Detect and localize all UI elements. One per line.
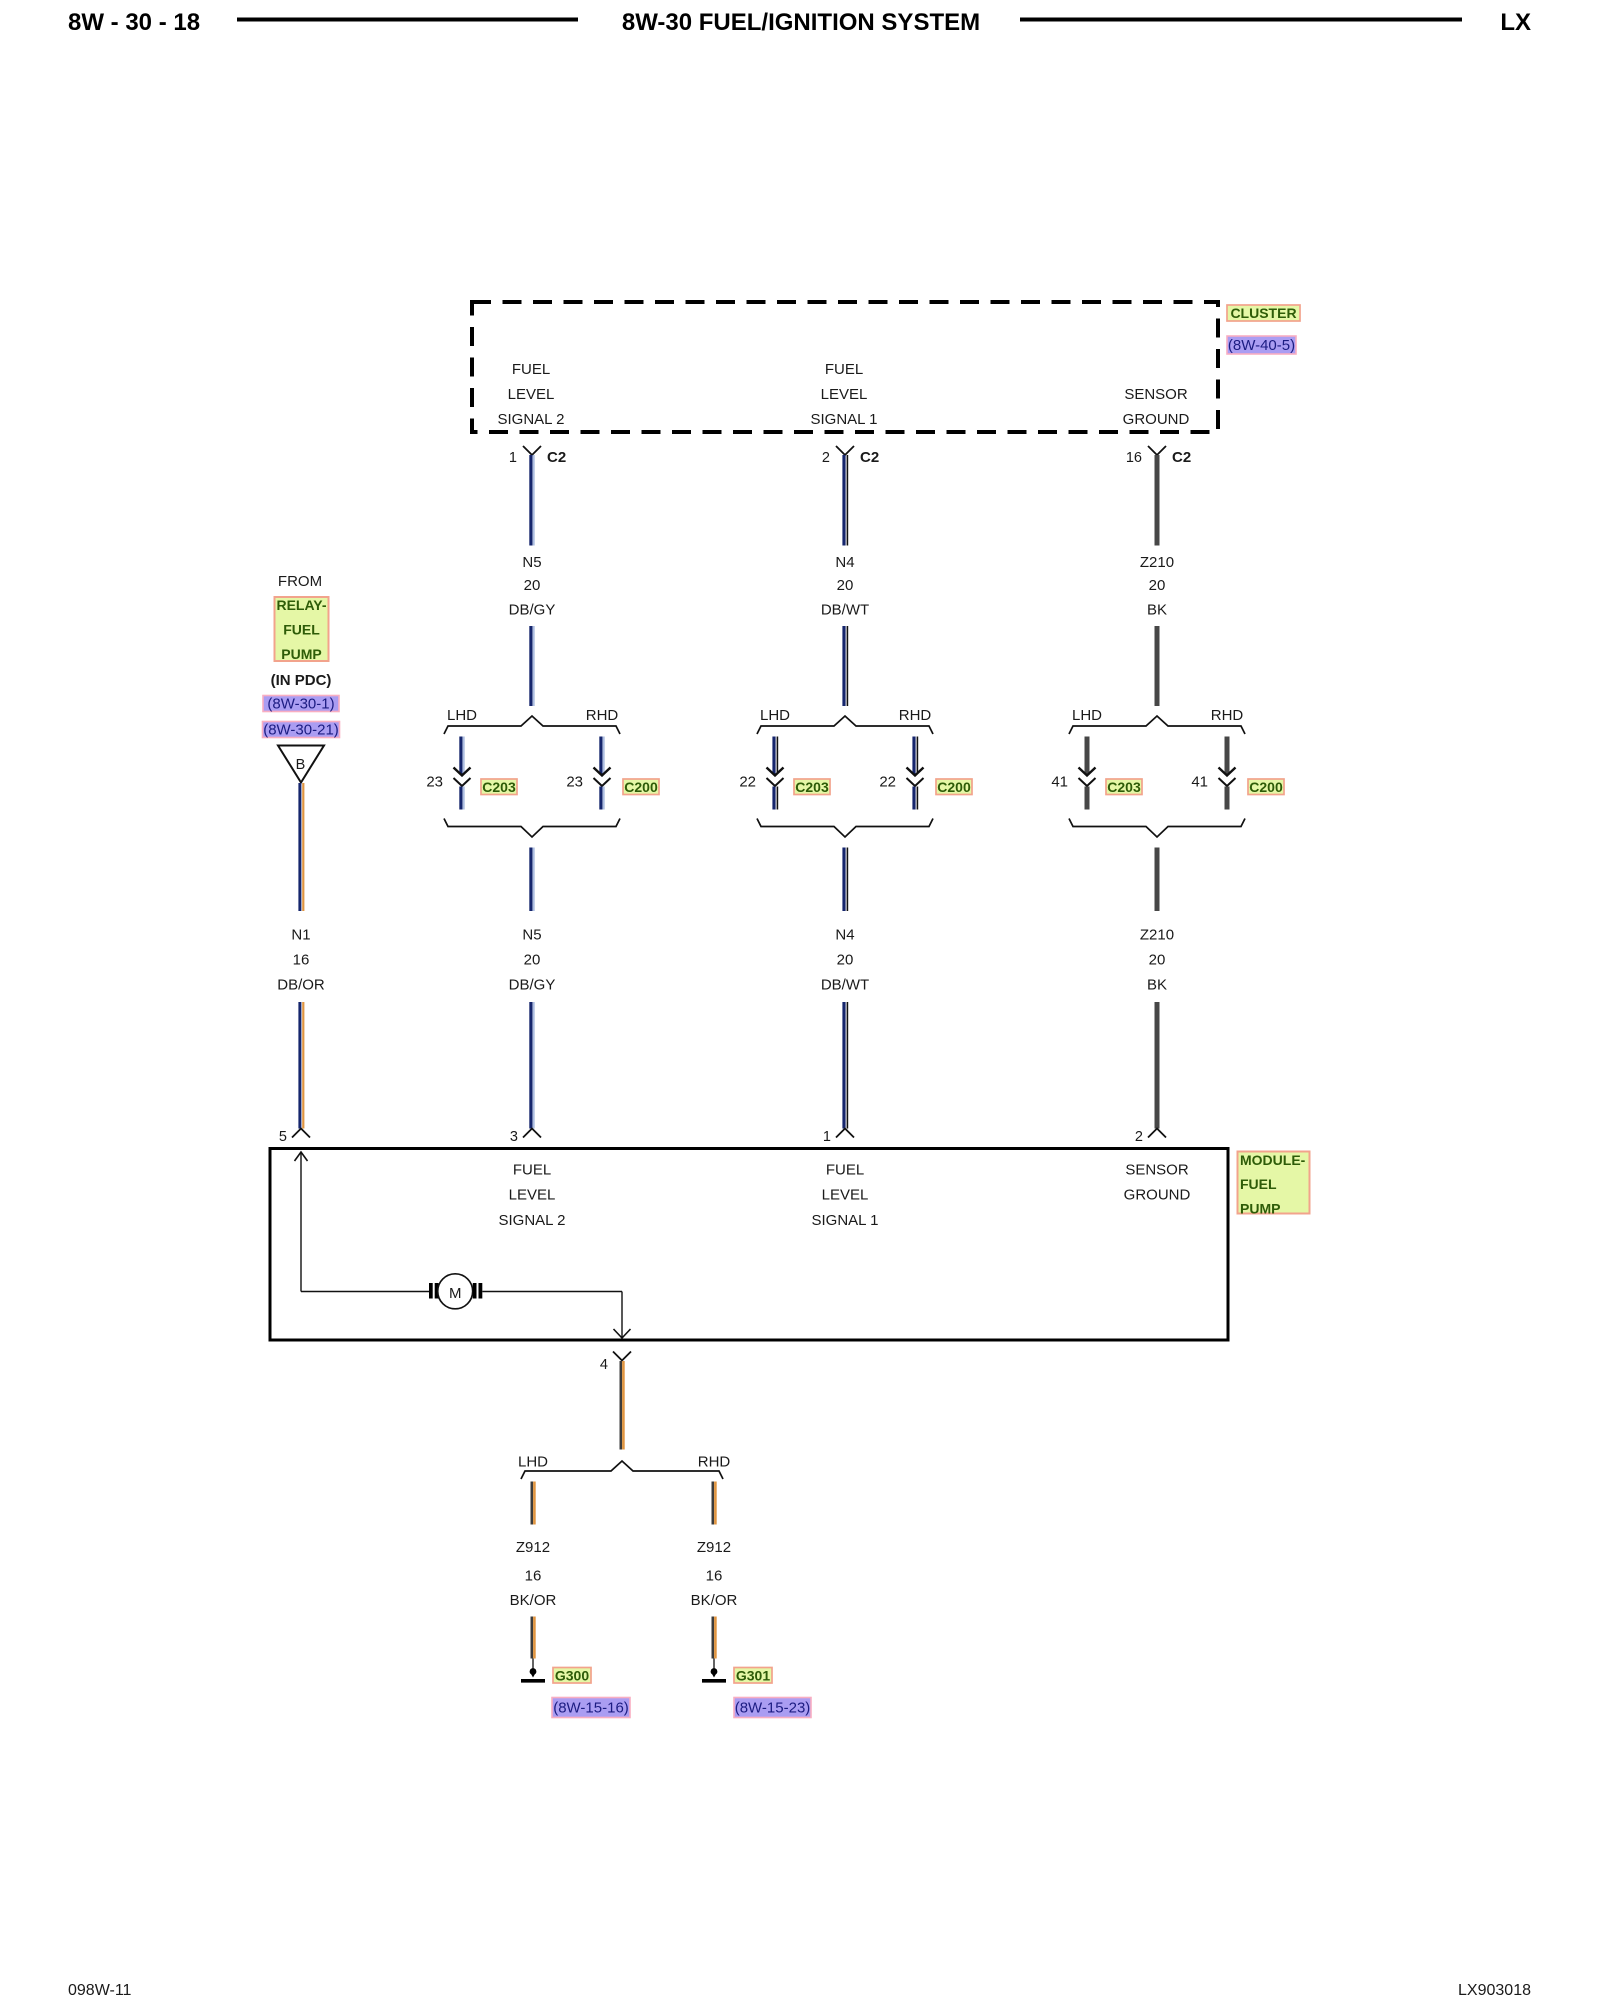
- svg-text:1: 1: [823, 1129, 831, 1145]
- LHD branch wire upper x=462: [461, 737, 464, 775]
- page link (8W-15-16): [552, 1698, 630, 1718]
- component label RELAY-FUEL PUMP: [275, 597, 329, 662]
- splice merge brace (bottom) x=532: [444, 819, 620, 838]
- svg-text:FUEL: FUEL: [825, 361, 863, 378]
- LHD wire to ground G300 (BK/OR): [532, 1617, 535, 1659]
- arrowhead into connector C203 x=775: [767, 768, 784, 776]
- module box (FUEL PUMP MODULE): [270, 1149, 1228, 1341]
- LHD branch wire upper x=1087: [1085, 737, 1090, 775]
- connector label C200 x=602: [623, 779, 659, 795]
- svg-text:FUEL: FUEL: [513, 1162, 551, 1179]
- splice merge brace (bottom) x=845: [757, 819, 933, 838]
- cluster pin label FUEL LEVEL SIGNAL 1: [811, 361, 878, 428]
- wire N1 to module pin 5 (DB/OR): [300, 1002, 303, 1129]
- svg-text:C2: C2: [547, 449, 566, 466]
- footer sheet number: [68, 1982, 132, 1999]
- svg-text:8W-30 FUEL/IGNITION SYSTEM: 8W-30 FUEL/IGNITION SYSTEM: [622, 9, 980, 36]
- svg-text:G301: G301: [736, 1667, 770, 1683]
- wire Z210 to module pin 2 (BK): [1155, 1002, 1160, 1129]
- wire N4 to module pin 1 (DB/WT): [844, 1002, 847, 1129]
- ground label G301: [734, 1667, 772, 1683]
- cluster pin label FUEL LEVEL SIGNAL 2: [498, 361, 565, 428]
- wire N4 upper segment (DB/WT): [844, 455, 847, 546]
- svg-text:16: 16: [706, 1568, 723, 1585]
- svg-text:GROUND: GROUND: [1123, 411, 1190, 428]
- svg-text:RHD: RHD: [698, 1454, 731, 1471]
- cluster pin label SENSOR GROUND: [1123, 386, 1190, 428]
- svg-text:PUMP: PUMP: [281, 646, 321, 662]
- svg-text:Z210: Z210: [1140, 554, 1174, 571]
- ground symbol G301: [702, 1668, 726, 1681]
- header page number: [68, 9, 200, 36]
- svg-text:G300: G300: [555, 1667, 589, 1683]
- svg-text:C200: C200: [937, 779, 971, 795]
- svg-text:C2: C2: [860, 449, 879, 466]
- svg-text:LX903018: LX903018: [1458, 1982, 1531, 1999]
- svg-text:5: 5: [279, 1129, 287, 1145]
- svg-text:C203: C203: [795, 779, 829, 795]
- connector fork C200 x=1227: [1219, 778, 1236, 786]
- module pin 3 fork: [523, 1129, 541, 1138]
- arrow up to pin 5 (inside module): [295, 1152, 308, 1161]
- svg-text:LEVEL: LEVEL: [821, 386, 868, 403]
- svg-text:22: 22: [739, 774, 756, 791]
- LHD label at splice x=845: [760, 707, 790, 724]
- svg-text:LHD: LHD: [518, 1454, 548, 1471]
- svg-text:N5: N5: [522, 927, 541, 944]
- module pin label FUEL LEVEL SIGNAL 1: [812, 1162, 879, 1230]
- module pin number 1: [823, 1129, 831, 1145]
- svg-text:RHD: RHD: [899, 707, 932, 724]
- pin number 1 at C2: [509, 450, 517, 466]
- wire Z210 below splice (BK): [1155, 848, 1160, 912]
- svg-text:Z210: Z210: [1140, 927, 1174, 944]
- svg-text:16: 16: [293, 952, 310, 969]
- RHD branch wire upper x=915: [914, 737, 917, 775]
- svg-text:2: 2: [822, 450, 830, 466]
- svg-text:Z912: Z912: [516, 1539, 550, 1556]
- arrowhead into connector C200 x=1227: [1219, 768, 1236, 776]
- splice merge brace (bottom) x=1157: [1069, 819, 1245, 838]
- svg-text:2: 2: [1135, 1129, 1143, 1145]
- module pin number 5: [279, 1129, 287, 1145]
- motor M1 (fuel pump): [438, 1274, 473, 1309]
- svg-text:M: M: [449, 1285, 462, 1302]
- svg-text:LHD: LHD: [1072, 707, 1102, 724]
- ground lead G300: [532, 1659, 534, 1670]
- svg-text:BK: BK: [1147, 977, 1167, 994]
- wire label Z912 16 BK/OR (LHD): [510, 1539, 557, 1609]
- svg-text:LEVEL: LEVEL: [508, 386, 555, 403]
- svg-text:DB/GY: DB/GY: [509, 602, 556, 619]
- svg-text:RELAY-: RELAY-: [276, 597, 326, 613]
- wire label Z210 20 BK (lower): [1140, 927, 1174, 994]
- page link (8W-30-21): [263, 722, 340, 739]
- svg-text:BK/OR: BK/OR: [510, 1592, 557, 1609]
- (IN PDC) label: [271, 672, 332, 689]
- arrowhead into connector C203 x=462: [454, 768, 471, 776]
- connector C2 pin 16 fork: [1148, 446, 1166, 455]
- svg-text:20: 20: [837, 952, 854, 969]
- svg-text:DB/GY: DB/GY: [509, 977, 556, 994]
- svg-text:C203: C203: [482, 779, 516, 795]
- wire Z912 from pin 4 (BK/OR): [621, 1361, 624, 1450]
- wire label N5 20 DB/GY (upper): [509, 554, 556, 619]
- page link (8W-40-5): [1227, 336, 1296, 354]
- RHD branch wire upper x=602: [601, 737, 604, 775]
- svg-text:DB/OR: DB/OR: [277, 977, 325, 994]
- svg-text:FUEL: FUEL: [826, 1162, 864, 1179]
- wire N5 to module pin 3 (DB/GY): [531, 1002, 534, 1129]
- wire label Z912 16 BK/OR (RHD): [691, 1539, 738, 1609]
- RHD branch wire lower x=1227: [1225, 787, 1230, 810]
- RHD label at splice x=532: [586, 707, 619, 724]
- page link (8W-30-1): [263, 696, 339, 713]
- wire label N5 20 DB/GY (lower): [509, 927, 556, 994]
- connector fork C200 x=915: [907, 778, 924, 786]
- motor left brush: [429, 1283, 439, 1299]
- wire label N1 16 DB/OR: [277, 927, 325, 994]
- svg-text:RHD: RHD: [1211, 707, 1244, 724]
- LHD ground branch wire Z912 (BK/OR): [532, 1482, 535, 1525]
- connector fork C203 x=462: [454, 778, 471, 786]
- svg-text:LEVEL: LEVEL: [509, 1187, 556, 1204]
- svg-text:20: 20: [837, 577, 854, 594]
- LHD label at ground splice: [518, 1454, 548, 1471]
- svg-text:FUEL: FUEL: [283, 622, 320, 638]
- svg-text:FUEL: FUEL: [512, 361, 550, 378]
- connector label C200 x=915: [936, 779, 972, 795]
- LHD label at splice x=1157: [1072, 707, 1102, 724]
- cluster box (dashed): [472, 302, 1218, 432]
- module pin number 3: [510, 1129, 518, 1145]
- ground symbol G300: [521, 1668, 545, 1681]
- wire label N4 20 DB/WT (lower): [821, 927, 869, 994]
- svg-text:N5: N5: [522, 554, 541, 571]
- svg-text:41: 41: [1191, 774, 1208, 791]
- module pin 4 fork: [613, 1352, 631, 1361]
- RHD branch wire lower x=602: [601, 787, 604, 810]
- ground splice brace: [521, 1461, 723, 1479]
- svg-text:FUEL: FUEL: [1240, 1176, 1277, 1192]
- svg-text:16: 16: [525, 1568, 542, 1585]
- svg-text:SENSOR: SENSOR: [1125, 1162, 1189, 1179]
- wire N4 above splice (DB/WT): [844, 626, 847, 706]
- svg-text:16: 16: [1126, 450, 1142, 466]
- svg-text:41: 41: [1051, 774, 1068, 791]
- svg-text:N4: N4: [835, 554, 854, 571]
- pin number 2 at C2: [822, 450, 830, 466]
- svg-text:LHD: LHD: [760, 707, 790, 724]
- FROM label: [278, 573, 322, 590]
- module pin number 4: [600, 1357, 608, 1373]
- wire N5 upper segment (DB/GY): [531, 455, 534, 546]
- svg-text:C200: C200: [1249, 779, 1283, 795]
- svg-text:C200: C200: [624, 779, 658, 795]
- svg-text:22: 22: [879, 774, 896, 791]
- svg-text:(8W-40-5): (8W-40-5): [1228, 337, 1295, 354]
- connector label C200 x=1227: [1248, 779, 1284, 795]
- RHD ground branch wire Z912 (BK/OR): [713, 1482, 716, 1525]
- svg-text:8W - 30 - 18: 8W - 30 - 18: [68, 9, 200, 36]
- arrowhead into connector C200 x=915: [907, 768, 924, 776]
- wire N4 below splice (DB/WT): [844, 848, 847, 912]
- svg-text:GROUND: GROUND: [1124, 1187, 1191, 1204]
- splice branch brace (top) x=845: [757, 716, 933, 734]
- svg-text:BK/OR: BK/OR: [691, 1592, 738, 1609]
- RHD branch wire lower x=915: [914, 787, 917, 810]
- svg-text:FROM: FROM: [278, 573, 322, 590]
- pin 22 label at C200 x=915: [879, 774, 896, 791]
- RHD branch wire upper x=1227: [1225, 737, 1230, 775]
- svg-text:LX: LX: [1500, 9, 1531, 36]
- svg-text:SENSOR: SENSOR: [1124, 386, 1188, 403]
- svg-text:1: 1: [509, 450, 517, 466]
- off-page connector triangle B: [278, 746, 324, 783]
- connector label C203 x=1087: [1106, 779, 1142, 795]
- ground label G300: [553, 1667, 591, 1683]
- module pin 2 fork: [1148, 1129, 1166, 1138]
- svg-text:20: 20: [524, 952, 541, 969]
- module pin label FUEL LEVEL SIGNAL 2: [499, 1162, 566, 1230]
- header rule right: [1020, 18, 1462, 22]
- wire N5 above splice (DB/GY): [531, 626, 534, 706]
- module pin number 2: [1135, 1129, 1143, 1145]
- header LX: [1500, 9, 1531, 36]
- svg-text:20: 20: [1149, 952, 1166, 969]
- svg-text:23: 23: [566, 774, 583, 791]
- connector name C2 (pin 1): [547, 449, 566, 466]
- svg-text:C2: C2: [1172, 449, 1191, 466]
- RHD wire to ground G301 (BK/OR): [713, 1617, 716, 1659]
- LHD label at splice x=532: [447, 707, 477, 724]
- pin 41 label at C203 x=1087: [1051, 774, 1068, 791]
- svg-text:BK: BK: [1147, 602, 1167, 619]
- pin 41 label at C200 x=1227: [1191, 774, 1208, 791]
- connector label C203 x=775: [794, 779, 830, 795]
- wire down to pin 4 inside module: [621, 1292, 623, 1338]
- svg-text:RHD: RHD: [586, 707, 619, 724]
- svg-text:SIGNAL 1: SIGNAL 1: [811, 411, 878, 428]
- component label CLUSTER: [1227, 305, 1300, 321]
- svg-text:SIGNAL 2: SIGNAL 2: [499, 1212, 566, 1229]
- connector name C2 (pin 2): [860, 449, 879, 466]
- splice branch brace (top) x=532: [444, 716, 620, 734]
- LHD branch wire lower x=1087: [1085, 787, 1090, 810]
- svg-text:N4: N4: [835, 927, 854, 944]
- svg-text:3: 3: [510, 1129, 518, 1145]
- wire Z210 upper segment (BK): [1155, 455, 1160, 546]
- connector C2 pin 2 fork: [836, 446, 854, 455]
- RHD label at splice x=845: [899, 707, 932, 724]
- connector fork C203 x=775: [767, 778, 784, 786]
- arrow down to pin 4 (inside module): [614, 1329, 631, 1338]
- svg-text:CLUSTER: CLUSTER: [1230, 305, 1296, 321]
- page link (8W-15-23): [734, 1698, 811, 1718]
- connector fork C203 x=1087: [1079, 778, 1096, 786]
- wire to motor left brush: [301, 1291, 429, 1293]
- pin 23 label at C203 x=462: [426, 774, 443, 791]
- svg-text:DB/WT: DB/WT: [821, 977, 869, 994]
- LHD branch wire upper x=775: [774, 737, 777, 775]
- svg-text:B: B: [296, 757, 306, 773]
- svg-text:23: 23: [426, 774, 443, 791]
- wire label Z210 20 BK (upper): [1140, 554, 1174, 619]
- connector C2 pin 1 fork: [523, 446, 541, 455]
- svg-text:(8W-15-16): (8W-15-16): [553, 1700, 629, 1717]
- svg-text:PUMP: PUMP: [1240, 1201, 1280, 1217]
- wire pin5 down inside module: [300, 1160, 302, 1292]
- arrowhead into connector C200 x=602: [594, 768, 611, 776]
- wire Z210 above splice (BK): [1155, 626, 1160, 706]
- connector fork C200 x=602: [594, 778, 611, 786]
- module pin 1 fork: [836, 1129, 854, 1138]
- svg-text:(8W-15-23): (8W-15-23): [735, 1700, 811, 1717]
- wire label N4 20 DB/WT (upper): [821, 554, 869, 619]
- pin 23 label at C200 x=602: [566, 774, 583, 791]
- wire N5 below splice (DB/GY): [531, 848, 534, 912]
- svg-text:098W-11: 098W-11: [68, 1982, 132, 1999]
- module pin label SENSOR GROUND: [1124, 1162, 1191, 1204]
- svg-text:(IN PDC): (IN PDC): [271, 672, 332, 689]
- svg-text:N1: N1: [291, 927, 310, 944]
- svg-text:C203: C203: [1107, 779, 1141, 795]
- svg-text:(8W-30-21): (8W-30-21): [263, 722, 339, 739]
- wire from motor right brush: [482, 1291, 622, 1293]
- connector name C2 (pin 16): [1172, 449, 1191, 466]
- LHD branch wire lower x=775: [774, 787, 777, 810]
- svg-text:(8W-30-1): (8W-30-1): [267, 696, 334, 713]
- RHD label at ground splice: [698, 1454, 731, 1471]
- svg-text:4: 4: [600, 1357, 608, 1373]
- arrowhead into connector C203 x=1087: [1079, 768, 1096, 776]
- LHD branch wire lower x=462: [461, 787, 464, 810]
- pin number 16 at C2: [1126, 450, 1142, 466]
- footer drawing number: [1458, 1982, 1531, 1999]
- svg-text:MODULE-: MODULE-: [1240, 1152, 1306, 1168]
- svg-text:20: 20: [524, 577, 541, 594]
- svg-text:LHD: LHD: [447, 707, 477, 724]
- wire N1 from relay (DB/OR): [300, 783, 303, 911]
- header rule left: [237, 18, 578, 22]
- svg-text:DB/WT: DB/WT: [821, 602, 869, 619]
- splice branch brace (top) x=1157: [1069, 716, 1245, 734]
- RHD label at splice x=1157: [1211, 707, 1244, 724]
- connector label C203 x=462: [481, 779, 517, 795]
- svg-text:SIGNAL 2: SIGNAL 2: [498, 411, 565, 428]
- svg-text:Z912: Z912: [697, 1539, 731, 1556]
- header title: [622, 9, 980, 36]
- ground lead G301: [713, 1659, 715, 1670]
- motor right brush: [473, 1283, 483, 1299]
- svg-text:LEVEL: LEVEL: [822, 1187, 869, 1204]
- pin 22 label at C203 x=775: [739, 774, 756, 791]
- svg-text:20: 20: [1149, 577, 1166, 594]
- module pin 5 fork: [292, 1129, 310, 1138]
- svg-text:SIGNAL 1: SIGNAL 1: [812, 1212, 879, 1229]
- component label MODULE-FUEL PUMP: [1238, 1152, 1310, 1217]
